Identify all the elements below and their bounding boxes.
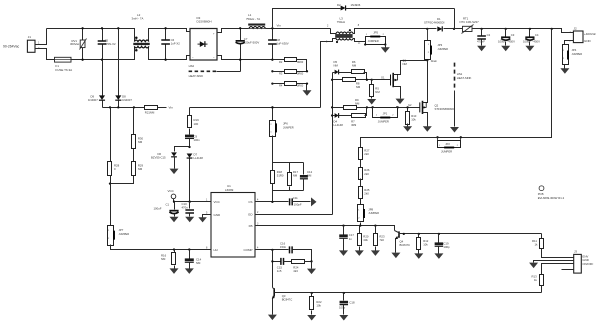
svg-text:GND: GND	[584, 39, 592, 43]
svg-text:JUMPER: JUMPER	[437, 47, 448, 51]
svg-text:D2: D2	[337, 3, 341, 7]
jumper JP5	[364, 30, 386, 45]
svg-text:150n: 150n	[280, 245, 287, 249]
node divider top	[551, 28, 553, 30]
jumper JP8	[358, 205, 380, 226]
transistor Q2 STF30N65DM6 mosfet	[420, 97, 455, 132]
wire top rail L1 to transformer	[266, 28, 331, 30]
wire top rail J1 to L2	[47, 28, 133, 30]
svg-text:NM: NM	[161, 257, 166, 261]
svg-text:3mH - 7A: 3mH - 7A	[132, 17, 144, 21]
capacitor C16 150n	[280, 241, 312, 261]
svg-text:Vin: Vin	[169, 106, 174, 110]
svg-text:C4: C4	[535, 33, 539, 37]
diode D2 1N4936	[337, 3, 455, 10]
svg-text:VCC: VCC	[214, 200, 221, 204]
svg-text:1N4936: 1N4936	[351, 3, 361, 7]
resistor R4 0R00	[271, 82, 308, 91]
wire FB line	[255, 226, 395, 231]
svg-text:10k: 10k	[423, 243, 428, 247]
PCB reference designator	[538, 186, 565, 200]
capacitor C18 100p	[339, 292, 355, 321]
wire J3 ON/OFF to R13	[542, 264, 574, 275]
svg-text:100uF - 450V: 100uF - 450V	[523, 40, 540, 44]
svg-text:NM: NM	[196, 261, 201, 265]
svg-text:JP1: JP1	[383, 111, 388, 115]
svg-text:J2: J2	[574, 26, 578, 30]
resistor R19 100	[188, 108, 200, 135]
svg-text:NM: NM	[334, 64, 339, 68]
svg-text:HEAT-SINK: HEAT-SINK	[457, 76, 472, 80]
wire aux rail	[103, 107, 145, 109]
capacitor C9 100n	[185, 134, 200, 146]
wire J1 pin1 to top rail	[35, 29, 47, 45]
svg-text:FUSE T6.3A: FUSE T6.3A	[55, 68, 72, 72]
wire FB divider sense from +400V rail	[461, 29, 552, 138]
svg-text:ON/OFF: ON/OFF	[582, 262, 593, 266]
resistor R30 NM	[132, 108, 144, 162]
inductor L1 750uH - 7A PFC choke	[246, 13, 266, 28]
svg-text:750uH - 7A: 750uH - 7A	[246, 17, 260, 21]
IC U1 L6699	[206, 184, 259, 257]
svg-text:NM: NM	[356, 85, 361, 89]
svg-text:L6699: L6699	[225, 188, 234, 192]
svg-text:R2: R2	[279, 60, 283, 64]
diode D5 NM	[333, 60, 352, 74]
svg-text:C18: C18	[349, 300, 355, 304]
varistor RV1 300Vac	[70, 27, 87, 61]
svg-text:220uF-500V: 220uF-500V	[244, 40, 260, 44]
jumper JP7	[108, 184, 211, 250]
svg-text:NM: NM	[403, 62, 408, 66]
ground at U1 GND pin	[198, 215, 210, 223]
resistor R11 1k	[532, 234, 574, 258]
svg-text:LL4148: LL4148	[194, 156, 204, 160]
svg-text:GND: GND	[214, 213, 222, 217]
jumper JP1	[372, 106, 399, 123]
svg-text:NM: NM	[307, 173, 312, 177]
svg-text:JP4: JP4	[572, 48, 577, 52]
VCC net symbol	[168, 189, 211, 202]
svg-text:2k0: 2k0	[364, 152, 369, 156]
svg-text:750uH: 750uH	[337, 20, 345, 24]
jumper JP3	[425, 29, 449, 61]
svg-text:0R00: 0R00	[297, 84, 304, 88]
svg-text:JP3: JP3	[437, 43, 442, 47]
svg-text:R21NM: R21NM	[145, 110, 155, 114]
svg-text:1uF-630V: 1uF-630V	[276, 42, 288, 46]
svg-text:HEAT-SINK: HEAT-SINK	[189, 74, 204, 78]
svg-text:JUMPER: JUMPER	[572, 52, 583, 56]
ground below COMP network	[307, 262, 316, 275]
svg-text:JP6: JP6	[283, 122, 288, 126]
capacitor C8 1uF-630V	[268, 27, 289, 61]
capacitor C2 470nF	[477, 28, 491, 52]
svg-text:2k0: 2k0	[364, 192, 369, 196]
svg-text:43k: 43k	[363, 238, 368, 242]
transformer L3 750uH	[321, 16, 428, 44]
svg-text:7k0: 7k0	[379, 238, 384, 242]
resistor R8 NM	[331, 78, 372, 90]
wire Q3 base rail	[275, 292, 542, 294]
wire COMP line	[255, 249, 289, 251]
wire drain node to Q2	[427, 61, 429, 97]
resistor R12 10k	[414, 233, 428, 259]
svg-text:1uF-X2: 1uF-X2	[171, 42, 181, 46]
bridge rectifier D3 D15XB60H	[186, 16, 249, 60]
svg-text:+400Vdc: +400Vdc	[584, 32, 596, 36]
svg-text:1N4007: 1N4007	[122, 98, 132, 102]
resistor R23 7k0	[371, 224, 385, 255]
svg-text:NM: NM	[293, 173, 298, 177]
svg-text:C3: C3	[511, 33, 515, 37]
jumper JP6	[270, 106, 294, 162]
svg-text:100uF: 100uF	[154, 207, 162, 211]
svg-text:JUMPER: JUMPER	[283, 125, 294, 129]
jumper JP2	[436, 136, 462, 153]
svg-text:NM: NM	[355, 102, 360, 106]
resistor R2 0R00	[273, 58, 307, 72]
resistor R21 NM	[145, 106, 174, 115]
svg-text:470N-X2: 470N-X2	[105, 42, 116, 46]
capacitor C3 100uF-450V	[498, 28, 515, 52]
svg-text:Vin: Vin	[277, 24, 282, 28]
resistor R6 NM	[352, 60, 367, 80]
svg-text:0R00: 0R00	[297, 60, 304, 64]
svg-text:LL4148: LL4148	[334, 123, 344, 127]
svg-text:G2: G2	[408, 103, 412, 107]
svg-text:R4: R4	[279, 84, 283, 88]
capacitor C19 100p	[434, 233, 450, 259]
ground below JP5	[385, 45, 387, 48]
svg-text:STPSC4H065DI: STPSC4H065DI	[424, 20, 445, 24]
resistor R3 0R00	[271, 70, 308, 76]
svg-text:JUMPER: JUMPER	[368, 39, 379, 43]
svg-text:470nF: 470nF	[477, 40, 485, 44]
diode D1 STPSC4H065DI	[424, 17, 461, 32]
svg-text:100uF - 450V: 100uF - 450V	[498, 40, 515, 44]
svg-text:J3: J3	[574, 250, 577, 254]
transistor Q4 BC847C	[391, 231, 541, 259]
wire transformer pin9 down	[320, 45, 322, 108]
wire to Q1 gate	[371, 76, 391, 81]
svg-text:100p: 100p	[443, 245, 450, 249]
NTC thermistor RT1 NTC 1R0-S237	[460, 17, 482, 34]
svg-text:51R0: 51R0	[277, 173, 284, 177]
capacitor C6 1uF-X2	[161, 27, 180, 61]
heatsink HS2 dashed	[189, 60, 241, 78]
svg-text:BC847C: BC847C	[400, 243, 411, 247]
svg-text:4k3: 4k3	[293, 269, 298, 273]
svg-text:NM: NM	[138, 167, 143, 171]
resistor R20 43k	[355, 224, 369, 255]
capacitor C4 100uF-450V	[523, 28, 540, 52]
diode D8 1N4007 from neutral	[115, 27, 132, 107]
capacitor C5 470N-X2	[98, 27, 116, 61]
svg-text:90-264Vac: 90-264Vac	[3, 45, 19, 49]
wire mid rail to transformer pin9	[190, 107, 321, 109]
svg-text:HU: HU	[214, 248, 218, 252]
common-mode choke L2 3mH - 7A	[132, 13, 186, 60]
svg-text:NTC 1R0-S237: NTC 1R0-S237	[460, 20, 480, 24]
connector J1 90-264Vac input	[3, 35, 40, 52]
resistor R22 10k	[307, 292, 322, 321]
svg-text:100: 100	[194, 122, 199, 126]
svg-text:Drain: Drain	[431, 59, 438, 63]
svg-text:2k0: 2k0	[364, 172, 369, 176]
svg-text:VCC: VCC	[168, 189, 175, 193]
wire output rail to J2	[482, 29, 574, 33]
svg-text:100p: 100p	[339, 306, 346, 310]
zener D6 BZV55-C15	[151, 146, 191, 174]
wire J3 stub	[562, 269, 574, 271]
node Drain	[426, 59, 428, 61]
svg-text:470n: 470n	[182, 205, 189, 209]
svg-text:1n5: 1n5	[277, 269, 282, 273]
svg-text:1N4007: 1N4007	[88, 98, 98, 102]
capacitor C10 470n	[182, 201, 195, 223]
wire COMP to Q3 collector	[272, 262, 274, 288]
wire CS line	[255, 201, 289, 203]
transistor Q3 BC847C	[268, 288, 292, 321]
wire bottom rail fuse to L2	[71, 59, 133, 61]
svg-text:NM: NM	[138, 140, 143, 144]
wire bottom rail bridge to C7 C8	[241, 59, 273, 61]
capacitor C15 1n5 and resistor R24 4k3	[273, 250, 313, 274]
heatsink HS1 dashed	[450, 63, 471, 133]
svg-text:C2: C2	[487, 33, 491, 37]
network R18 R17 C12	[271, 163, 313, 191]
resistor R9 NM gate row	[331, 98, 420, 109]
capacitor C7 220uF-500V	[236, 27, 260, 61]
connector J3 ON/OFF	[574, 250, 594, 274]
svg-text:JUMPER: JUMPER	[378, 119, 389, 123]
svg-text:10k: 10k	[316, 303, 321, 307]
divider chain R27 R26 R25	[359, 148, 370, 205]
resistor R5 NM pulldown	[367, 80, 380, 105]
svg-text:JP5: JP5	[373, 30, 378, 34]
fuse F1 FUSE T6.3A	[55, 57, 73, 72]
wire gate net left vertical	[332, 73, 334, 215]
svg-text:JP8: JP8	[368, 207, 373, 211]
wire D2 bypass riser right	[454, 9, 456, 29]
svg-text:HS2: HS2	[189, 64, 195, 68]
capacitor C1 100uF	[154, 201, 179, 223]
svg-text:JUMPER: JUMPER	[119, 232, 130, 236]
svg-text:JUMPER: JUMPER	[368, 211, 379, 215]
jumper JP4 to ground	[560, 41, 582, 74]
svg-text:100n: 100n	[194, 138, 201, 142]
ground right arrow at C11	[311, 197, 317, 206]
svg-text:COMP: COMP	[244, 248, 253, 252]
svg-text:BC847C: BC847C	[282, 298, 293, 302]
wire GD to gate vertical	[255, 214, 333, 216]
svg-text:C11: C11	[293, 196, 298, 200]
transistor Q1 NM mosfet	[391, 59, 408, 105]
svg-text:J1: J1	[28, 35, 32, 39]
resistor R16 NM	[161, 248, 179, 274]
diode D9 1N4007 from line	[88, 60, 105, 108]
svg-text:JP2: JP2	[445, 142, 450, 146]
resistor R28 0	[108, 108, 120, 184]
resistor R7 3R9	[351, 108, 366, 128]
wire drain node to Q1	[401, 61, 428, 69]
svg-text:D15XB60H: D15XB60H	[197, 20, 212, 24]
resistor R13 1k	[532, 275, 544, 293]
svg-text:EVL6699-300W R1.2: EVL6699-300W R1.2	[538, 196, 565, 200]
wire D2 bypass riser left	[273, 9, 341, 29]
svg-text:JUMPER: JUMPER	[441, 149, 452, 153]
svg-text:NM: NM	[352, 64, 357, 68]
ground below R4 network	[303, 90, 312, 96]
wire J1 pin2 to fuse	[35, 49, 55, 60]
capacitor C17 1n	[339, 224, 354, 255]
resistor R10 10k gate pulldown	[403, 106, 417, 131]
diode D4 LL4148	[331, 113, 352, 127]
svg-text:10k: 10k	[411, 118, 416, 122]
svg-text:NM: NM	[375, 90, 380, 94]
svg-text:BZV55-C15: BZV55-C15	[151, 156, 166, 160]
resistor R29 NM	[109, 162, 144, 185]
wire J3 GND to ground	[529, 261, 573, 269]
capacitor C14 NM	[185, 248, 202, 274]
capacitor C11 100pF	[290, 196, 311, 207]
svg-text:JP7: JP7	[119, 228, 124, 232]
diode D7 LL4148	[187, 152, 204, 201]
wire divider to R27 chain	[361, 138, 438, 148]
svg-text:C1: C1	[166, 202, 170, 206]
svg-text:STF30N65DM6: STF30N65DM6	[435, 107, 455, 111]
svg-text:R3: R3	[279, 71, 283, 75]
svg-text:CS: CS	[248, 200, 252, 204]
svg-text:300Vac: 300Vac	[70, 42, 80, 46]
svg-text:FB: FB	[249, 224, 253, 228]
wire CS sense vertical	[272, 191, 274, 202]
svg-text:100pF: 100pF	[294, 203, 302, 207]
svg-text:1n: 1n	[349, 237, 353, 241]
connector J2 +400Vdc	[570, 26, 597, 43]
svg-text:3R9: 3R9	[351, 123, 357, 127]
